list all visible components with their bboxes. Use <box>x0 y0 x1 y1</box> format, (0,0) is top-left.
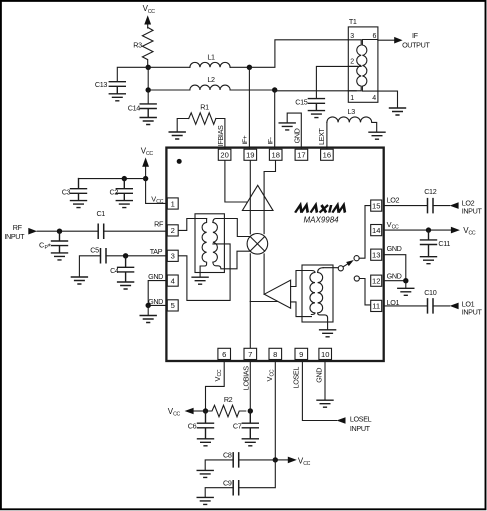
capacitor C1 <box>98 224 104 238</box>
wire node A to L1 <box>148 66 190 68</box>
wire switch LO1 to pin 11 <box>359 279 370 305</box>
pin box 10 <box>319 348 332 359</box>
svg-text:C5: C5 <box>90 245 99 254</box>
resistor R2 <box>206 405 246 417</box>
wire Vcc arrow to C2/C3 rail <box>145 167 147 179</box>
svg-text:1: 1 <box>350 95 354 102</box>
svg-text:LOBIAS: LOBIAS <box>241 366 250 390</box>
pin box 16 <box>321 149 334 160</box>
Vcc arrow (bottom left) <box>185 408 194 415</box>
node K (GND bracket right) <box>403 278 408 283</box>
svg-text:LOSEL: LOSEL <box>350 414 372 423</box>
resistor R1 <box>189 113 216 125</box>
node N (C8/Vcc junction) <box>273 457 278 462</box>
ground (C7) <box>242 439 258 446</box>
ground (C8) <box>197 470 213 477</box>
svg-text:R2: R2 <box>224 395 233 404</box>
svg-text:GND: GND <box>315 368 324 383</box>
svg-text:CC: CC <box>469 231 476 237</box>
pin box 7 <box>244 348 257 359</box>
wire L2 to node D <box>230 89 275 91</box>
capacitor C11 <box>421 230 437 256</box>
wire C8 to node N <box>239 459 276 461</box>
svg-text:C11: C11 <box>438 239 450 248</box>
node F (C2 junction) <box>122 176 127 181</box>
wire pin6 to node L <box>206 361 225 411</box>
svg-text:5: 5 <box>171 301 175 310</box>
wire C12 to LO2 INPUT arrow <box>433 205 450 207</box>
svg-text:RF: RF <box>154 220 164 229</box>
IF OUTPUT arrow <box>394 37 402 44</box>
rotated label LOSEL pin9 <box>291 367 300 389</box>
svg-text:CC: CC <box>146 151 153 157</box>
ground (right balun) <box>320 330 336 337</box>
wire pin18 jog down to mixer <box>264 160 275 294</box>
node M (R2/C7 junction) <box>248 408 253 413</box>
rotated label VCC pin6 <box>213 369 223 381</box>
node G (Cp junction) <box>57 229 62 234</box>
wire pin14 Vcc <box>384 229 451 231</box>
svg-text:MAX9984: MAX9984 <box>304 216 340 225</box>
node E (Vcc rail) <box>143 176 148 181</box>
svg-text:16: 16 <box>323 151 331 160</box>
ground (C2) <box>116 201 132 208</box>
wire pin7 down to node M <box>249 361 251 411</box>
svg-text:14: 14 <box>372 226 380 235</box>
svg-text:C8: C8 <box>223 450 232 459</box>
wire balun to switch pole <box>323 267 338 269</box>
pin box 1 <box>167 198 178 209</box>
rotated label VCC pin8 <box>265 369 275 381</box>
svg-text:C3: C3 <box>62 187 71 196</box>
LOSEL INPUT arrow <box>337 417 346 424</box>
wire node L to Vcc arrow <box>194 410 206 412</box>
wire T1 pin2 to C15 <box>316 66 357 98</box>
svg-text:GND: GND <box>148 272 163 281</box>
svg-text:LO1: LO1 <box>387 298 400 307</box>
wire pin15 LO2 to C12 <box>384 205 427 207</box>
capacitor C10 <box>428 299 434 313</box>
svg-text:4: 4 <box>372 95 376 102</box>
pin box 9 <box>295 348 308 359</box>
svg-text:IF: IF <box>412 31 419 40</box>
IC U1 MAX9984 outline <box>166 148 383 361</box>
wire C8 to ground <box>205 460 233 470</box>
rotated label IF- pin18 <box>267 137 274 144</box>
capacitor C7 <box>242 411 258 439</box>
rotated label IF+ pin19 <box>242 135 249 144</box>
svg-text:GND: GND <box>387 271 402 280</box>
ground (C9) <box>197 497 213 504</box>
ground (C14) <box>140 118 156 125</box>
left balun primary winding <box>200 219 207 277</box>
wire pin 3 TAP line <box>106 255 166 257</box>
RF INPUT arrow <box>28 228 37 235</box>
wire pin8 Vcc down <box>274 361 276 460</box>
ground (C3) <box>71 201 87 208</box>
svg-text:C10: C10 <box>424 288 436 297</box>
wire node B to C14 <box>147 90 149 104</box>
wire node I to ground <box>147 305 149 315</box>
svg-text:INPUT: INPUT <box>462 207 483 216</box>
wire T1 pin4 to ground <box>378 91 398 108</box>
svg-text:T1: T1 <box>349 17 357 26</box>
wire node B to L2 <box>148 89 190 91</box>
ground (C15) <box>308 111 324 118</box>
MAXIM logo <box>295 205 347 213</box>
wire pin4 GND bracket <box>148 281 166 306</box>
svg-text:RF: RF <box>13 223 23 232</box>
inductor L2 <box>190 85 230 90</box>
Vcc power arrow (pin 1 rail) <box>142 157 149 166</box>
svg-text:CC: CC <box>270 369 276 376</box>
svg-text:CC: CC <box>217 369 223 376</box>
wire pin11 LO1 to C10 <box>384 305 427 307</box>
wire L1 to node C <box>230 66 249 68</box>
ground (pins 12/13) <box>398 288 414 295</box>
pin box 4 <box>167 275 178 286</box>
wire balun secondary top to mixer <box>213 219 250 237</box>
capacitor C9 <box>233 481 239 495</box>
resistor R3 <box>142 27 153 67</box>
svg-text:LO2: LO2 <box>387 195 400 204</box>
svg-text:8: 8 <box>273 350 277 359</box>
wire C10 to LO1 INPUT arrow <box>433 305 450 307</box>
pin box 13 <box>371 249 382 260</box>
right balun box <box>302 265 333 322</box>
capacitor Cp <box>52 231 68 252</box>
op-amp U1b (LO amplifier) <box>264 280 290 308</box>
ground (C4) <box>118 282 134 289</box>
rotated label GND pin10 <box>315 368 324 383</box>
svg-text:11: 11 <box>372 302 380 311</box>
right balun secondary winding <box>318 268 328 330</box>
wire rail to C2/C3 <box>79 178 146 180</box>
wire node N to Vcc arrow <box>275 459 288 461</box>
pin 1 indicator dot <box>177 159 182 164</box>
wire pin20 to amp input <box>225 160 248 202</box>
svg-text:LOSEL: LOSEL <box>291 367 300 389</box>
wire R1 to pin 20 <box>216 119 225 150</box>
mixer X1 <box>247 234 268 255</box>
pin box 17 <box>295 149 308 160</box>
inductor L1 <box>190 62 230 67</box>
wire pin16 to L3 <box>326 122 328 149</box>
pin box 5 <box>167 300 178 311</box>
svg-text:6: 6 <box>373 33 377 40</box>
ground (C5) <box>71 277 87 284</box>
right balun primary winding <box>310 271 315 315</box>
svg-text:C15: C15 <box>295 97 307 106</box>
svg-text:7: 7 <box>248 350 252 359</box>
wire node A down to node B <box>147 67 149 90</box>
pin box 20 <box>218 149 231 160</box>
svg-text:IF+: IF+ <box>242 135 249 144</box>
svg-text:L1: L1 <box>207 53 215 62</box>
wire node C to T1 pin3 (jog up) <box>249 40 348 68</box>
ground (L3) <box>369 132 385 139</box>
svg-text:4: 4 <box>171 276 175 285</box>
ground (R1) <box>169 132 185 139</box>
wire node A to C13 <box>117 67 148 81</box>
svg-text:13: 13 <box>372 251 380 260</box>
svg-text:3: 3 <box>350 33 354 40</box>
node H (C4 junction) <box>123 253 128 258</box>
wire T1 pin6 to IF OUTPUT <box>378 39 394 41</box>
svg-text:9: 9 <box>299 350 303 359</box>
wire LO amp lower input <box>291 302 312 317</box>
wire C1 to pin 2 <box>104 230 167 232</box>
pin box 2 <box>167 225 178 236</box>
ground (Cp) <box>52 253 68 260</box>
svg-text:C12: C12 <box>424 187 436 196</box>
wire pin13 GND bracket <box>384 255 406 281</box>
capacitor C6 <box>198 411 214 439</box>
wire C9 to ground <box>205 488 233 497</box>
Vcc arrow (bottom right) <box>288 457 297 464</box>
ground (left balun) <box>192 277 208 284</box>
wire pin7 LOBIAS up <box>249 302 251 349</box>
svg-text:CC: CC <box>156 199 163 205</box>
svg-text:18: 18 <box>271 151 279 160</box>
wire LO amp upper input <box>291 271 312 287</box>
svg-text:GND: GND <box>292 128 301 143</box>
ground (pin 17) <box>279 123 295 130</box>
svg-text:IF-: IF- <box>267 137 274 144</box>
wire node D to T1 pin1 <box>275 90 357 92</box>
node I (GND bracket) <box>146 303 151 308</box>
wire pin17 to ground bracket <box>287 113 301 149</box>
svg-text:C14: C14 <box>128 104 140 113</box>
pin box 15 <box>371 200 382 211</box>
svg-text:19: 19 <box>246 151 254 160</box>
svg-text:C6: C6 <box>188 421 197 430</box>
wire pin3 to balun secondary center tap <box>178 244 230 301</box>
svg-text:LEXT: LEXT <box>317 127 326 145</box>
capacitor C3 <box>71 179 87 201</box>
transformer T1 box <box>348 27 378 102</box>
ground (C13) <box>109 94 125 101</box>
node D (L2/IF- junction) <box>272 87 277 92</box>
node J (C11 junction) <box>426 227 431 232</box>
switch throw circle LO1 <box>354 276 359 281</box>
switch pole circle <box>338 266 343 271</box>
rotated label GND pin17 <box>292 128 301 143</box>
svg-text:6: 6 <box>222 350 226 359</box>
Vcc arrow (pin 14) <box>451 227 460 234</box>
capacitor C12 <box>428 199 434 213</box>
svg-text:GND: GND <box>148 297 163 306</box>
wire pin12 GND <box>384 280 406 282</box>
svg-text:INPUT: INPUT <box>4 232 25 241</box>
op-amp U1a (IF amplifier) <box>242 185 273 210</box>
pin box 3 <box>167 250 178 261</box>
svg-text:CC: CC <box>173 411 180 417</box>
svg-text:2: 2 <box>171 226 175 235</box>
wire RF input to C1 <box>37 230 98 232</box>
wire pin5 GND <box>148 304 166 306</box>
svg-text:IFBIAS: IFBIAS <box>216 125 225 146</box>
capacitor C5 <box>101 249 107 263</box>
wire C5 to ground <box>79 256 100 277</box>
wire node K to ground <box>405 281 407 288</box>
rotated label IFBIAS pin20 <box>216 125 225 146</box>
wire mixer to LO amp lower input <box>250 301 277 303</box>
svg-text:L2: L2 <box>207 75 215 84</box>
node B (L2/C14 junction) <box>146 87 151 92</box>
svg-text:C7: C7 <box>233 421 242 430</box>
svg-text:TAP: TAP <box>150 247 163 256</box>
wire balun secondary bottom to mixer <box>213 251 250 269</box>
svg-text:20: 20 <box>220 151 228 160</box>
svg-text:CC: CC <box>303 461 310 467</box>
capacitor C8 <box>233 453 239 467</box>
pin box 8 <box>269 348 282 359</box>
ground (pins 4/5) <box>140 316 156 323</box>
svg-text:C13: C13 <box>95 80 107 89</box>
wire pin10 GND down <box>324 361 326 400</box>
svg-text:R3: R3 <box>133 40 142 49</box>
svg-text:CC: CC <box>392 225 399 231</box>
LO2 INPUT arrow <box>450 202 459 209</box>
capacitor C14 <box>140 104 156 117</box>
ground (T1 pin4) <box>390 108 406 115</box>
T1 primary winding <box>348 40 361 91</box>
svg-text:INPUT: INPUT <box>350 424 371 433</box>
wire pin19 down through amp to mixer <box>249 160 251 301</box>
wire node D down to pin 18 <box>274 90 276 149</box>
T1 primary center tap (pin 2) <box>348 65 361 67</box>
wire switch LO2 to pin 15 <box>359 206 371 259</box>
wire Vcc arrow to R3 <box>147 25 149 29</box>
left balun secondary winding <box>213 222 218 262</box>
wire R1 to ground <box>177 119 189 132</box>
ground (C11) <box>421 257 437 264</box>
rotated label LOBIAS pin7 <box>241 366 250 390</box>
svg-text:15: 15 <box>372 201 380 210</box>
svg-text:GND: GND <box>387 244 402 253</box>
ground (pin 10) <box>317 400 333 407</box>
pin box 6 <box>218 348 231 359</box>
switch throw circle LO2 <box>354 256 359 261</box>
node C (L1/IF+ junction) <box>247 65 252 70</box>
wire pin2 to balun primary <box>178 219 206 231</box>
pin box 11 <box>371 300 382 311</box>
switch arm with arrow <box>343 264 348 267</box>
pin box 18 <box>269 149 282 160</box>
capacitor C15 <box>308 99 324 111</box>
node A (R3/L1/C13 junction) <box>146 65 151 70</box>
svg-text:C4: C4 <box>110 266 119 275</box>
svg-text:*: * <box>48 243 51 252</box>
svg-text:10: 10 <box>321 350 329 359</box>
svg-text:INPUT: INPUT <box>462 308 483 317</box>
LO1 INPUT arrow <box>450 303 459 310</box>
svg-text:12: 12 <box>372 277 380 286</box>
wire rail to pin 1 <box>146 179 167 204</box>
inductor L3 <box>327 117 377 132</box>
svg-text:C2: C2 <box>110 187 119 196</box>
rotated label LEXT pin16 <box>317 127 326 145</box>
svg-text:R1: R1 <box>200 103 209 112</box>
svg-text:CC: CC <box>148 9 155 15</box>
pin box 12 <box>371 275 382 286</box>
svg-text:2: 2 <box>350 59 354 66</box>
svg-text:17: 17 <box>297 151 305 160</box>
capacitor C4 <box>118 256 134 282</box>
left balun box <box>195 214 224 273</box>
svg-text:C9: C9 <box>223 478 232 487</box>
svg-text:L3: L3 <box>348 107 356 116</box>
capacitor C2 <box>116 179 132 201</box>
Vcc power arrow (top) <box>144 15 151 24</box>
wire node C down to pin 19 <box>248 67 250 149</box>
pin box 19 <box>244 149 257 160</box>
T1 secondary winding <box>362 40 378 92</box>
pin box 14 <box>371 225 382 236</box>
wire pin9 LOSEL to input arrow <box>302 361 336 421</box>
ground (C6) <box>198 439 214 446</box>
svg-text:C1: C1 <box>96 209 105 218</box>
svg-text:OUTPUT: OUTPUT <box>402 41 430 50</box>
node L (R2/C6 junction) <box>203 408 208 413</box>
svg-text:1: 1 <box>171 199 175 208</box>
capacitor C13 <box>109 82 125 94</box>
svg-text:3: 3 <box>171 252 175 261</box>
wire node N down to C9 <box>239 460 276 488</box>
